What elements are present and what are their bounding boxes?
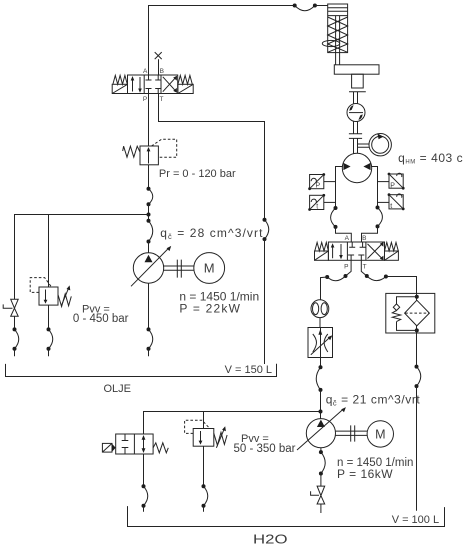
svg-text:V = 100 L: V = 100 L xyxy=(392,514,439,526)
filter bypass check valve xyxy=(397,297,417,304)
pump P2 variable arrow xyxy=(297,409,343,450)
svg-text:H2O: H2O xyxy=(253,533,288,547)
electric motor M1 xyxy=(194,253,225,284)
pipe end into tank OLJE xyxy=(14,349,16,357)
svg-text:qHM = 403 c: qHM = 403 c xyxy=(398,151,463,166)
wire return pipe into tank OLJE xyxy=(264,239,266,364)
gauge P left stub xyxy=(324,181,336,183)
torque meter hook arrows xyxy=(349,105,353,111)
wire hose to pump1 xyxy=(148,242,150,253)
svg-text:T: T xyxy=(363,264,367,271)
flow control up arrow xyxy=(318,329,322,335)
wire to flow meter xyxy=(321,277,328,300)
valve Pr internal flow arrow xyxy=(148,150,150,164)
wire throttle branch to pump2 node xyxy=(320,390,322,412)
gauge P right (pressure transducer) xyxy=(389,174,403,188)
shaft pump2-motor2 xyxy=(336,431,368,435)
valve1 right return spring xyxy=(178,75,192,84)
torque meter N1 xyxy=(347,104,365,122)
wire hose to valve2 A-port xyxy=(336,227,352,242)
pump P2 variable displacement xyxy=(306,419,335,448)
svg-text:M: M xyxy=(204,261,215,276)
node filter inlet xyxy=(415,295,419,299)
wire to filter xyxy=(386,277,417,294)
hose below VA1 xyxy=(15,329,19,348)
gauge t left stub xyxy=(324,201,336,203)
valve3 2/2 solenoid valve boxes xyxy=(116,434,153,454)
hose below Pvv1 xyxy=(49,329,53,348)
valve3 right box flow line with arrows xyxy=(143,437,145,451)
shaft coupling to hydro motor xyxy=(354,138,358,153)
hose motor left port to valve2 xyxy=(331,208,336,227)
hose pump1 suction xyxy=(149,329,153,348)
valve2 4/3 directional valve boxes xyxy=(328,242,384,260)
wire valve1 P-port down to pressure valve Pr xyxy=(148,94,150,147)
svg-text:t: t xyxy=(390,203,392,210)
valve Pvv2 spring xyxy=(214,432,227,445)
wire between hoses xyxy=(148,204,150,221)
cylinder C1 top cap line xyxy=(328,7,348,9)
flow meter FM xyxy=(311,300,329,318)
hose pump2 suction xyxy=(321,452,325,473)
shutoff valve VA2 xyxy=(317,486,325,504)
svg-text:T: T xyxy=(160,96,164,103)
valve1 right box crossed arrows xyxy=(163,77,176,92)
cylinder C1 (single acting, spring return) body xyxy=(328,4,348,53)
hose below valve3 xyxy=(144,486,148,505)
svg-text:A: A xyxy=(345,235,350,242)
gauge t right stub xyxy=(378,201,390,203)
wire relief valve Pvv1 supply xyxy=(48,215,50,288)
shutoff valve VA2 handle xyxy=(311,491,319,495)
valve3 spring xyxy=(153,443,168,453)
tachometer rotation arrow xyxy=(377,134,383,140)
svg-text:P = 22kW: P = 22kW xyxy=(179,301,241,315)
svg-text:P = 16kW: P = 16kW xyxy=(337,467,393,481)
valve1 left box parallel arrows xyxy=(133,77,141,92)
valve3 left box blocked ports xyxy=(122,434,129,454)
wire hose to shutoff valve VA2 xyxy=(320,474,322,487)
wire left branch header xyxy=(15,215,149,300)
cylinder C1 return spring xyxy=(328,17,348,52)
valve Pvv2 internal arrow (down) xyxy=(200,431,202,442)
motor HM right triangle xyxy=(363,163,370,170)
wire hose to valve2 B-port xyxy=(362,226,378,242)
valve Pvv1 pilot line (dashed) xyxy=(30,278,51,293)
gauge t right (temperature transducer) xyxy=(389,195,403,209)
hose below filter xyxy=(417,367,421,387)
coupling bars xyxy=(351,425,355,441)
gauge P left (pressure transducer) xyxy=(310,175,324,189)
valve3 solenoid arrow xyxy=(112,444,116,452)
svg-text:Pr = 0 - 120 bar: Pr = 0 - 120 bar xyxy=(159,168,236,180)
svg-text:B: B xyxy=(160,68,164,75)
valve3 solenoid xyxy=(102,443,112,452)
svg-text:P: P xyxy=(390,182,395,189)
coupling bar under block xyxy=(349,91,366,93)
pipe end into tank H2O xyxy=(143,506,145,512)
filter F1 housing xyxy=(386,293,435,333)
svg-text:qč = 28 cm^3/vrt: qč = 28 cm^3/vrt xyxy=(160,226,263,241)
svg-text:P: P xyxy=(143,96,147,103)
valve Pvv1 spring xyxy=(58,294,71,307)
pump P2 outlet triangle xyxy=(317,420,325,427)
wire throttle down xyxy=(320,358,322,368)
wire Pr to pump node xyxy=(148,165,150,189)
wire valve3 down xyxy=(143,454,145,486)
svg-text:t: t xyxy=(316,203,318,210)
press platen xyxy=(334,65,379,74)
coupling bars xyxy=(177,260,181,278)
wire valve1 A-port to cylinder supply line xyxy=(149,6,295,76)
wire Pvv2 drain xyxy=(203,446,205,486)
hose below throttle xyxy=(316,367,320,390)
gauge t left (temperature transducer) xyxy=(310,195,324,209)
valve Pvv1 adjustment arrow xyxy=(61,289,68,306)
hose on tank return xyxy=(265,220,269,239)
hydraulic motor HM xyxy=(342,153,371,182)
wire valve1 T-port return to tank xyxy=(159,94,265,220)
valve2 center box blocked ports xyxy=(348,242,366,260)
valve2 left box parallel arrows xyxy=(333,244,341,258)
svg-text:0 - 450 bar: 0 - 450 bar xyxy=(73,313,129,325)
svg-text:A: A xyxy=(143,68,148,75)
wire flow meter to throttle xyxy=(319,318,321,328)
svg-text:qč = 21 cm^3/vrt: qč = 21 cm^3/vrt xyxy=(326,392,421,407)
wire motor HM left port xyxy=(336,167,343,209)
plugged port X mark xyxy=(155,52,162,59)
flow control valve FC body xyxy=(308,328,333,358)
valve1 left solenoid xyxy=(112,84,127,93)
cylinder C1 spring end coil xyxy=(322,40,339,46)
wire pump1 suction xyxy=(148,283,150,329)
svg-text:B: B xyxy=(362,235,366,242)
tachometer n (double circle) xyxy=(369,134,391,156)
shaft torque meter to coupling xyxy=(354,122,358,134)
wire motor HM right port xyxy=(372,167,378,208)
wire header to relief Pvv2 xyxy=(203,412,205,429)
wire pump2 suction xyxy=(320,448,322,452)
pipe end into tank H2O xyxy=(320,504,322,513)
wire VA1 to hose xyxy=(14,316,16,329)
valve2 right return spring xyxy=(385,242,399,251)
tank H2O (water reservoir) xyxy=(128,506,445,526)
coupling flange bars xyxy=(349,134,362,139)
shutoff valve VA1 xyxy=(11,299,19,316)
B-port plug stub above valve1 xyxy=(158,59,160,75)
filter bypass spring xyxy=(392,311,400,322)
valve2 right box crossed arrows xyxy=(368,244,383,259)
filter element diamond xyxy=(405,300,430,326)
filter inlet line xyxy=(416,293,418,300)
relief valve Pvv2 body xyxy=(193,429,214,447)
valve Pvv2 adjustment arrow xyxy=(216,429,224,447)
pump P1 outlet triangle xyxy=(145,255,153,263)
svg-text:P: P xyxy=(344,264,348,271)
relief valve Pvv1 body xyxy=(39,287,58,305)
hose H1 (flexible line to cylinder) xyxy=(295,6,315,11)
motor HM left triangle xyxy=(343,163,350,170)
pipe end into tank OLJE xyxy=(48,349,50,357)
wire valve2 P-port down xyxy=(346,260,352,276)
wire hose to cylinder port xyxy=(315,5,328,7)
pipe end into tank OLJE xyxy=(148,349,150,357)
cylinder C1 piston rod xyxy=(336,16,340,65)
flow control restriction curves xyxy=(313,334,317,352)
hose valve2 T to filter branch xyxy=(367,276,386,281)
valve Pvv1 internal arrow (down) xyxy=(45,290,47,301)
gauge P right stub xyxy=(378,181,390,183)
valve2 left solenoid xyxy=(315,251,329,260)
valve2 right solenoid xyxy=(385,251,399,260)
node header / throttle branch junction xyxy=(319,410,323,414)
hose above pump1 xyxy=(149,221,153,242)
node junction pump outlet / relief branch xyxy=(147,213,151,217)
valve Pr pilot line (dashed) xyxy=(152,139,177,157)
shaft block to torque meter xyxy=(354,92,358,104)
valve Pr spring xyxy=(123,146,140,157)
wire bottom header valve3 to pump2 xyxy=(144,412,321,435)
flow control adjustment arrow xyxy=(311,337,330,354)
valve Pvv2 pilot line (dashed) xyxy=(185,420,210,433)
wire filter drain into tank H2O xyxy=(416,386,418,511)
torque meter needle line xyxy=(349,112,363,114)
wire Pvv1 drain xyxy=(48,305,50,329)
hose motor right port to valve2 xyxy=(378,208,383,227)
hose valve2 P to flow meter branch xyxy=(327,276,345,281)
svg-text:V = 150 L: V = 150 L xyxy=(225,364,272,376)
valve1 center box blocked ports xyxy=(146,75,162,94)
hose on pump pressure line xyxy=(149,189,153,205)
flow control internal line xyxy=(320,328,322,358)
press block under platen xyxy=(352,74,364,88)
cylinder C1 piston xyxy=(328,11,348,15)
shaft pump1-motor1 xyxy=(164,266,194,270)
pump P1 variable displacement xyxy=(133,253,163,283)
valve2 left return spring xyxy=(315,242,329,251)
svg-text:P: P xyxy=(316,183,321,190)
pump P1 variable arrow xyxy=(131,248,169,286)
filter element dashed line xyxy=(405,312,429,314)
wire valve2 T-port down xyxy=(361,260,367,276)
valve1 left return spring xyxy=(113,75,127,84)
svg-text:OLJE: OLJE xyxy=(104,383,132,395)
pipe end into tank H2O xyxy=(203,506,205,512)
wire filter outlet down xyxy=(416,326,418,367)
valve1 4/3 directional valve boxes xyxy=(128,75,178,94)
svg-text:M: M xyxy=(375,427,385,441)
shutoff valve VA1 handle xyxy=(3,304,12,308)
node filter outlet xyxy=(415,328,419,332)
pressure reducing valve Pr body xyxy=(140,146,158,165)
svg-text:50 - 350 bar: 50 - 350 bar xyxy=(234,443,296,455)
valve1 right solenoid xyxy=(178,84,193,93)
electric motor M2 xyxy=(367,421,393,447)
hose below Pvv2 xyxy=(204,486,208,505)
tachometer stub lines xyxy=(358,144,370,147)
tank OLJE (oil reservoir) xyxy=(6,364,277,377)
